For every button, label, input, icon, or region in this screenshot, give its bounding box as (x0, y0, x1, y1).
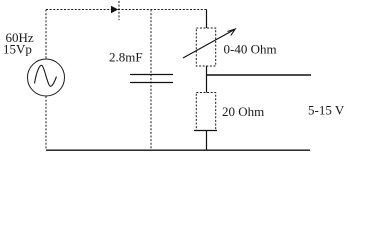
wire bottom horizontal (46, 149, 310, 151)
svg-text:5-15 V: 5-15 V (308, 103, 345, 118)
wire top horizontal (46, 9, 207, 11)
svg-text:20 Ohm: 20 Ohm (222, 104, 264, 119)
resistor R2 20 Ohm (194, 93, 217, 131)
wire between resistors (206, 66, 208, 93)
source V1 (28, 59, 65, 96)
svg-text:2.8mF: 2.8mF (109, 50, 143, 65)
wire below R2 (206, 131, 208, 151)
wire right branch top lead (206, 10, 208, 29)
arrow of variable resistor (183, 29, 235, 58)
capacitor C1 (130, 75, 173, 83)
diode D1 (111, 1, 119, 20)
resistor R1 variable 0-40 Ohm (196, 28, 215, 66)
wire left vertical upper (45, 10, 47, 60)
svg-text:15Vp: 15Vp (3, 42, 32, 57)
wire capacitor branch vertical (150, 10, 152, 151)
wire output top horizontal (206, 74, 311, 76)
svg-text:0-40 Ohm: 0-40 Ohm (224, 42, 277, 57)
wire left vertical lower (45, 96, 47, 150)
